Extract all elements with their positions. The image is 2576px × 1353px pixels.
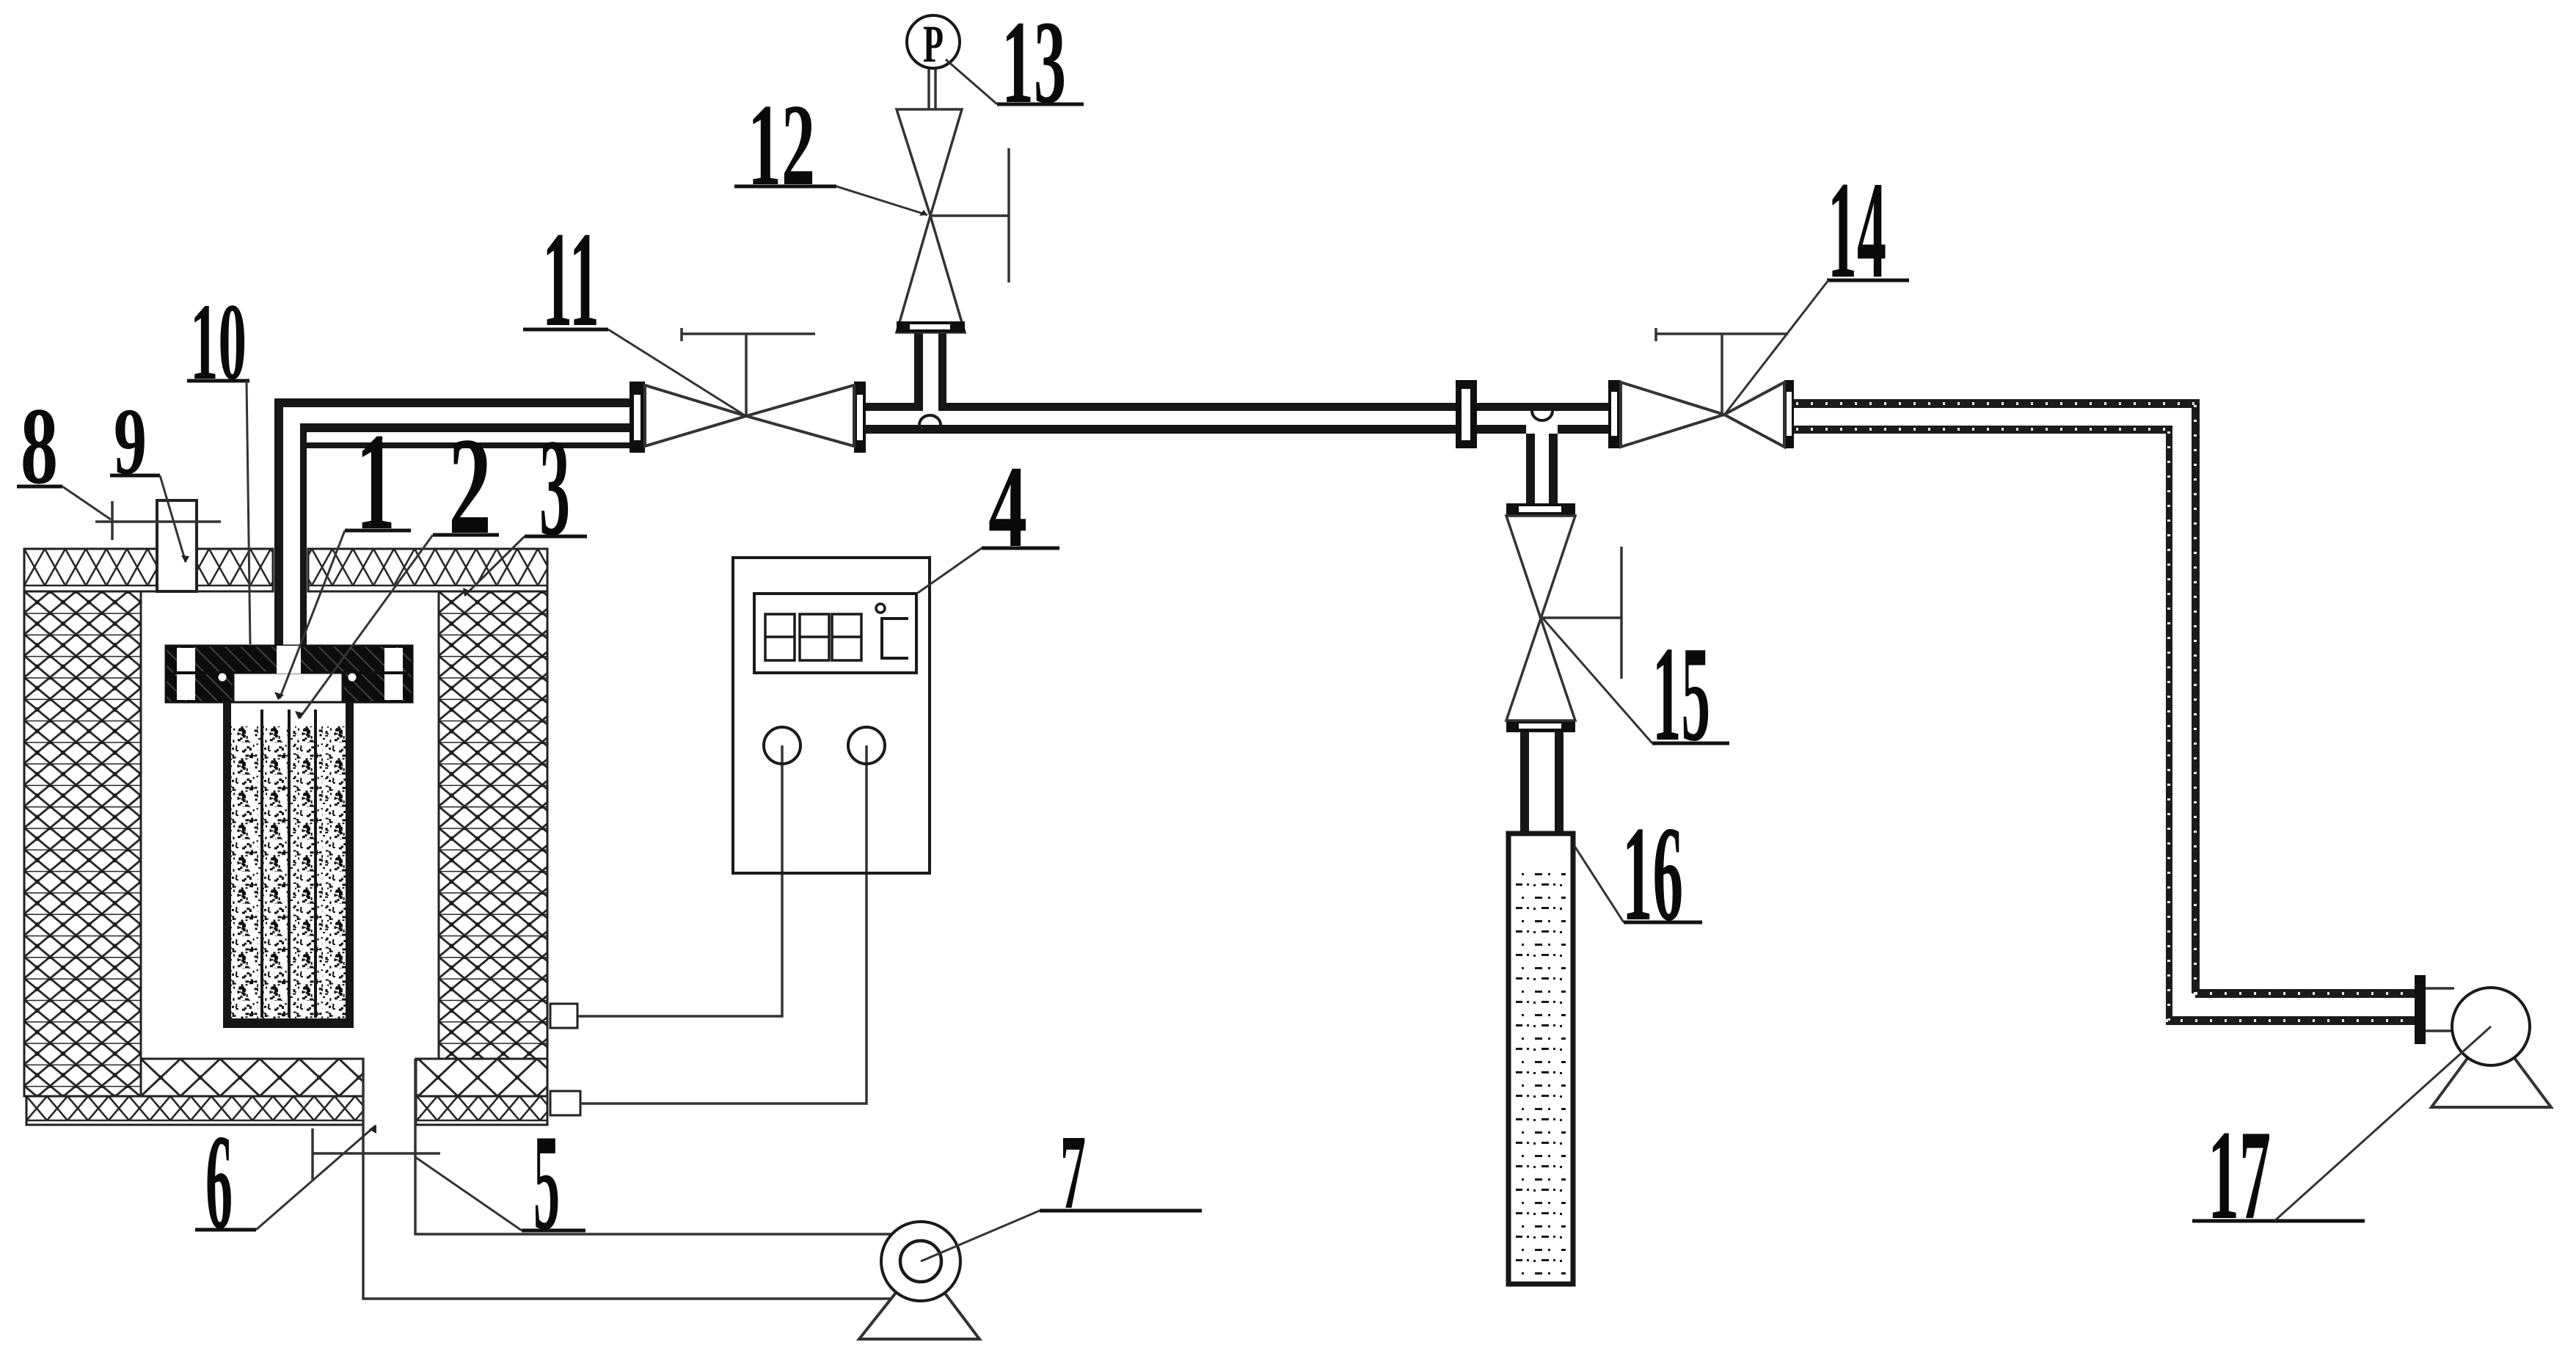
label 10 xyxy=(187,281,250,644)
svg-text:6: 6 xyxy=(205,1106,233,1258)
inlet tube 10 vertical walls xyxy=(274,398,307,646)
pump 7 (circulating pump) xyxy=(859,1222,979,1339)
label 11 xyxy=(523,204,745,415)
heater terminal tab lower xyxy=(550,1091,580,1115)
label 15 xyxy=(1543,619,1729,770)
label 9 xyxy=(110,389,189,563)
inlet pipe upper horizontal xyxy=(274,398,630,448)
svg-text:5: 5 xyxy=(533,1106,560,1258)
main pipe flange4 to valve14 xyxy=(1477,403,1608,434)
furnace bottom wall band right xyxy=(416,1096,547,1125)
svg-text:1: 1 xyxy=(356,405,395,559)
wire knob2 to tab lower xyxy=(580,745,866,1104)
pump17 flange xyxy=(2415,975,2458,1044)
svg-text:13: 13 xyxy=(1001,0,1066,128)
pressure gauge 13 xyxy=(907,15,960,109)
collection cylinder 16 xyxy=(1508,834,1573,1284)
svg-text:14: 14 xyxy=(1828,153,1886,307)
vacuum pump 17 xyxy=(2431,988,2551,1107)
svg-text:10: 10 xyxy=(190,281,247,403)
pipe flange 4 xyxy=(1456,380,1477,448)
label 6 xyxy=(195,1106,376,1258)
furnace left wall xyxy=(24,591,141,1096)
valve 14 xyxy=(1608,328,1794,448)
label 17 xyxy=(2192,1026,2491,1246)
control box 4 xyxy=(733,558,930,873)
furnace chamber floor band xyxy=(141,1059,363,1096)
thermocouple tick mark 8 xyxy=(95,501,221,540)
svg-text:9: 9 xyxy=(114,389,147,495)
tube to cylinder 16 xyxy=(1520,732,1564,873)
sample stipple 2 xyxy=(231,726,346,1018)
main pipe valve11 to flange4 xyxy=(866,403,1456,434)
furnace right wall xyxy=(439,591,547,1059)
label 7 xyxy=(921,1114,1202,1261)
label 12 xyxy=(734,79,927,216)
label 2 xyxy=(295,409,499,719)
svg-text:4: 4 xyxy=(988,441,1027,572)
svg-text:15: 15 xyxy=(1652,619,1710,770)
thermocouple port 9 (box in top wall) xyxy=(157,500,197,591)
tee to valve 15 xyxy=(1526,411,1558,503)
drain tube walls 5 xyxy=(363,1059,913,1299)
svg-text:11: 11 xyxy=(542,204,599,355)
textured pipe valve14 to pump17 xyxy=(1794,399,2415,1025)
label 1 xyxy=(274,405,411,700)
label 13 xyxy=(946,0,1084,128)
sample rods xyxy=(260,710,317,1018)
label 3 xyxy=(463,411,587,596)
label 14 xyxy=(1726,153,1909,413)
svg-text:P: P xyxy=(923,15,944,73)
svg-text:17: 17 xyxy=(2208,1104,2271,1246)
heater terminal tab upper xyxy=(550,1004,577,1028)
svg-text:12: 12 xyxy=(748,79,815,210)
furnace right bottom fine band xyxy=(416,1059,547,1096)
reactor cap flange xyxy=(166,646,412,702)
svg-text:7: 7 xyxy=(1060,1114,1086,1231)
gauge tee riser xyxy=(914,332,946,425)
valve 11 xyxy=(630,328,866,453)
valve 12 xyxy=(897,109,1009,332)
svg-text:2: 2 xyxy=(448,409,492,564)
furnace top wall band (insulation, item 3) xyxy=(24,549,547,591)
label 5 xyxy=(415,1106,585,1258)
furnace bottom wall band left xyxy=(26,1096,363,1125)
drain handle mark 6 xyxy=(313,1128,440,1180)
wire knob1 to tab upper xyxy=(577,745,782,1016)
label 16 xyxy=(1575,798,1702,949)
svg-text:16: 16 xyxy=(1622,798,1683,949)
svg-text:3: 3 xyxy=(539,411,570,565)
svg-text:8: 8 xyxy=(21,385,58,507)
label 4 xyxy=(918,441,1059,593)
valve 15 xyxy=(1506,503,1621,732)
label 8 xyxy=(17,385,111,519)
reactor vessel 1 xyxy=(223,702,354,1028)
